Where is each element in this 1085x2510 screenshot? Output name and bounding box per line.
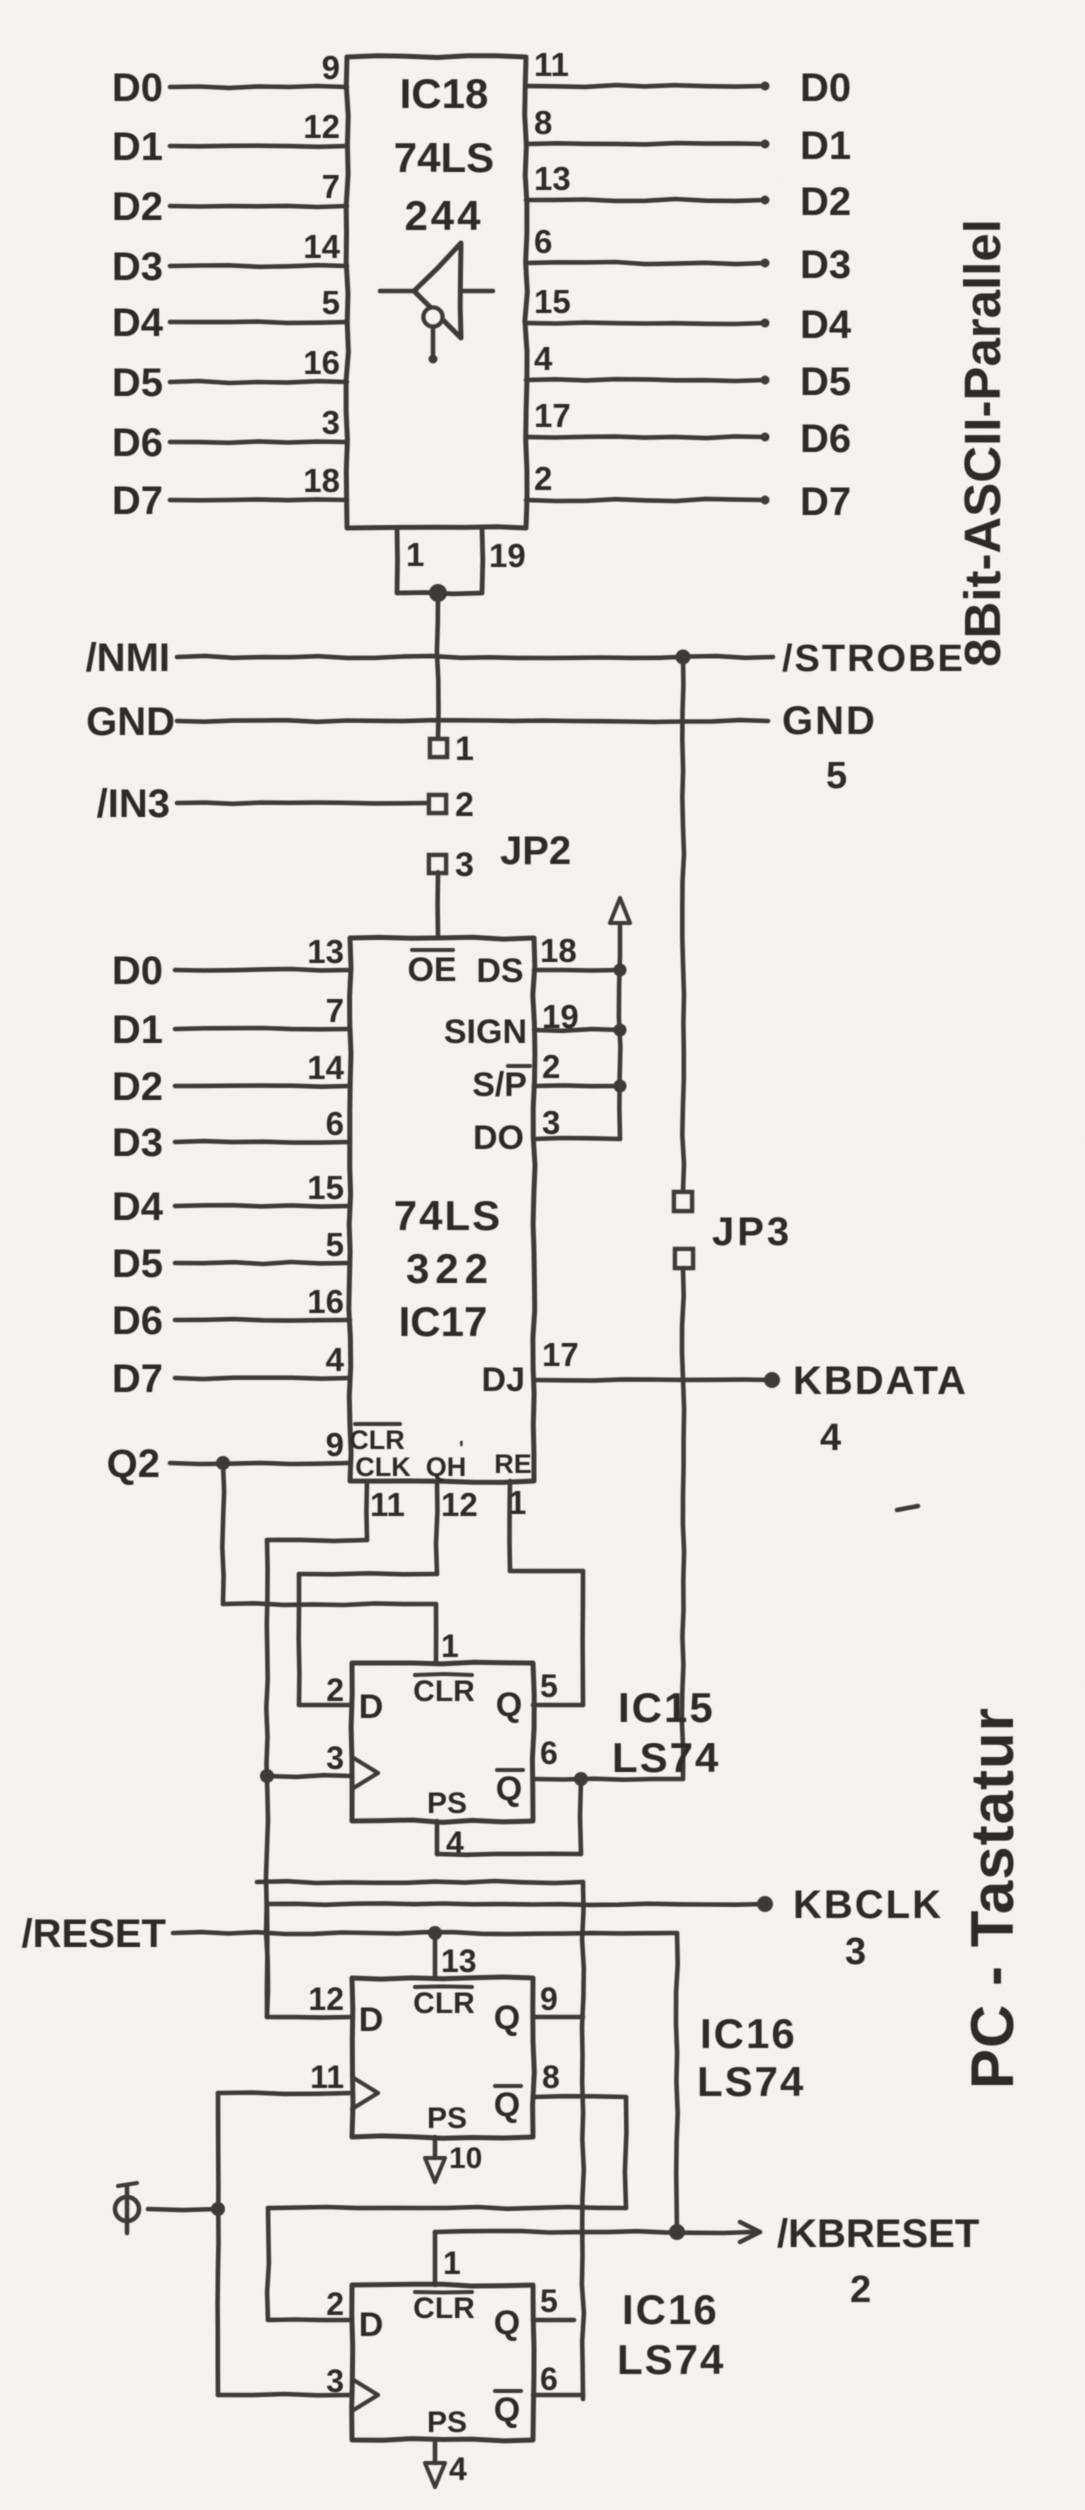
svg-text:6: 6 <box>534 223 552 260</box>
svg-text:D5: D5 <box>112 1242 163 1286</box>
svg-text:/IN3: /IN3 <box>97 782 170 826</box>
svg-text:D3: D3 <box>112 1121 163 1165</box>
svg-text:LS74: LS74 <box>617 2336 725 2383</box>
svg-text:CLK: CLK <box>355 1452 411 1482</box>
svg-text:2: 2 <box>326 2286 344 2322</box>
svg-text:S/P: S/P <box>472 1066 527 1104</box>
svg-text:2: 2 <box>455 786 474 824</box>
svg-text:15: 15 <box>307 1169 344 1206</box>
svg-text:/KBRESET: /KBRESET <box>777 2212 979 2256</box>
svg-text:D2: D2 <box>112 1065 163 1109</box>
svg-text:5: 5 <box>540 1668 558 1704</box>
svg-text:JP2: JP2 <box>500 829 571 873</box>
svg-text:D1: D1 <box>800 124 851 168</box>
svg-text:13: 13 <box>307 933 344 970</box>
svg-text:13: 13 <box>534 160 571 197</box>
svg-text:D3: D3 <box>800 243 851 287</box>
svg-text:RE: RE <box>494 1449 532 1479</box>
svg-text:16: 16 <box>303 344 340 381</box>
svg-text:D7: D7 <box>800 480 851 524</box>
svg-text:D4: D4 <box>112 1185 164 1229</box>
svg-text:/STROBE: /STROBE <box>782 638 965 680</box>
svg-text:IC18: IC18 <box>400 70 489 117</box>
svg-text:D5: D5 <box>112 361 163 405</box>
svg-text:5: 5 <box>322 284 340 321</box>
svg-text:2: 2 <box>534 460 552 497</box>
svg-text:16: 16 <box>307 1283 344 1320</box>
svg-text:Q: Q <box>494 1999 520 2037</box>
svg-text:': ' <box>459 1438 464 1460</box>
svg-text:7: 7 <box>326 992 344 1029</box>
svg-text:D1: D1 <box>112 125 163 169</box>
svg-text:IC16: IC16 <box>622 2286 719 2333</box>
svg-text:5: 5 <box>540 2283 558 2319</box>
svg-text:6: 6 <box>540 2361 558 2397</box>
svg-text:CLR: CLR <box>349 1425 405 1455</box>
svg-text:9: 9 <box>322 49 340 86</box>
svg-text:3: 3 <box>455 846 474 884</box>
svg-text:18: 18 <box>540 932 577 969</box>
svg-text:D0: D0 <box>800 66 851 110</box>
svg-text:4: 4 <box>820 1417 841 1459</box>
svg-text:74LS: 74LS <box>394 134 494 181</box>
svg-text:2: 2 <box>326 1672 344 1708</box>
svg-text:9: 9 <box>326 1426 344 1463</box>
svg-text:4: 4 <box>449 2451 467 2487</box>
svg-text:IC15: IC15 <box>618 1684 715 1731</box>
svg-text:12: 12 <box>308 1981 344 2017</box>
svg-text:IC17: IC17 <box>399 1298 488 1345</box>
svg-text:CLR: CLR <box>413 1675 475 1708</box>
svg-text:D7: D7 <box>112 479 163 523</box>
svg-text:PC - Tastatur: PC - Tastatur <box>959 1707 1026 2089</box>
svg-text:4: 4 <box>534 340 553 377</box>
svg-text:3: 3 <box>326 1740 344 1776</box>
svg-text:8Bit-ASCII-Parallel: 8Bit-ASCII-Parallel <box>954 219 1011 667</box>
svg-text:DJ: DJ <box>482 1361 525 1399</box>
svg-text:19: 19 <box>489 537 526 574</box>
svg-text:7: 7 <box>322 168 340 205</box>
svg-text:SIGN: SIGN <box>444 1013 527 1051</box>
svg-text:5: 5 <box>326 1226 344 1263</box>
svg-text:3: 3 <box>845 1931 866 1973</box>
svg-text:D5: D5 <box>800 360 851 404</box>
svg-text:244: 244 <box>404 192 483 239</box>
svg-text:D: D <box>359 2306 384 2344</box>
svg-text:3: 3 <box>322 404 340 441</box>
svg-text:10: 10 <box>449 2142 482 2175</box>
svg-text:GND: GND <box>86 700 175 744</box>
svg-text:1: 1 <box>455 730 474 768</box>
svg-text:GND: GND <box>782 699 877 743</box>
svg-text:Q: Q <box>496 1770 522 1808</box>
svg-text:D2: D2 <box>112 185 163 229</box>
svg-text:1: 1 <box>443 2245 461 2281</box>
svg-text:CLR: CLR <box>413 1987 475 2020</box>
svg-text:KBDATA: KBDATA <box>793 1359 968 1403</box>
svg-text:Q: Q <box>494 2304 520 2342</box>
svg-text:D: D <box>359 1688 384 1726</box>
svg-text:JP3: JP3 <box>712 1210 792 1254</box>
svg-text:5: 5 <box>826 755 847 797</box>
svg-text:D2: D2 <box>800 180 851 224</box>
svg-text:14: 14 <box>307 1049 344 1086</box>
svg-text:18: 18 <box>303 462 340 499</box>
svg-text:Q: Q <box>494 2391 520 2429</box>
svg-text:17: 17 <box>534 397 571 434</box>
svg-text:19: 19 <box>542 998 579 1035</box>
svg-text:/NMI: /NMI <box>86 636 170 680</box>
svg-text:11: 11 <box>370 1486 405 1523</box>
svg-text:IC16: IC16 <box>700 2010 797 2057</box>
svg-text:KBCLK: KBCLK <box>793 1883 943 1927</box>
svg-text:11: 11 <box>534 46 569 83</box>
svg-text:Q2: Q2 <box>107 1442 160 1486</box>
svg-text:PS: PS <box>427 1787 467 1820</box>
svg-text:D0: D0 <box>112 949 163 993</box>
svg-text:4: 4 <box>326 1341 345 1378</box>
svg-text:PS: PS <box>427 2406 467 2439</box>
svg-text:11: 11 <box>310 2059 344 2095</box>
svg-text:D6: D6 <box>112 421 163 465</box>
svg-text:74LS: 74LS <box>394 1192 502 1239</box>
svg-text:D7: D7 <box>112 1357 163 1401</box>
svg-text:D4: D4 <box>800 303 852 347</box>
svg-text:D3: D3 <box>112 245 163 289</box>
svg-text:D6: D6 <box>800 417 851 461</box>
svg-text:OE: OE <box>407 951 456 989</box>
svg-text:PS: PS <box>427 2102 467 2135</box>
svg-text:LS74: LS74 <box>697 2058 805 2105</box>
svg-text:8: 8 <box>542 2059 560 2095</box>
svg-text:D4: D4 <box>112 301 164 345</box>
svg-text:13: 13 <box>441 1943 477 1979</box>
svg-text:12: 12 <box>441 1486 478 1523</box>
svg-text:6: 6 <box>540 1735 558 1771</box>
svg-text:LS74: LS74 <box>612 1734 720 1781</box>
svg-text:Q: Q <box>494 2086 520 2124</box>
svg-text:CLR: CLR <box>413 2292 475 2325</box>
svg-text:3: 3 <box>542 1104 560 1141</box>
svg-text:17: 17 <box>542 1336 579 1373</box>
svg-text:2: 2 <box>850 2269 871 2311</box>
svg-text:6: 6 <box>326 1105 344 1142</box>
svg-text:2: 2 <box>542 1048 560 1085</box>
svg-text:DO: DO <box>473 1119 524 1157</box>
svg-text:15: 15 <box>534 283 571 320</box>
svg-text:D0: D0 <box>112 66 163 110</box>
svg-text:1: 1 <box>441 1628 459 1664</box>
svg-text:D: D <box>359 2001 384 2039</box>
svg-text:D1: D1 <box>112 1008 163 1052</box>
svg-text:DS: DS <box>476 952 523 990</box>
svg-text:/RESET: /RESET <box>22 1912 166 1956</box>
svg-text:8: 8 <box>534 104 552 141</box>
svg-text:Q: Q <box>496 1686 522 1724</box>
svg-text:322: 322 <box>406 1245 494 1292</box>
svg-text:14: 14 <box>303 228 340 265</box>
svg-text:9: 9 <box>540 1981 558 2017</box>
svg-text:12: 12 <box>303 108 340 145</box>
svg-text:D6: D6 <box>112 1299 163 1343</box>
svg-text:1: 1 <box>406 536 424 573</box>
